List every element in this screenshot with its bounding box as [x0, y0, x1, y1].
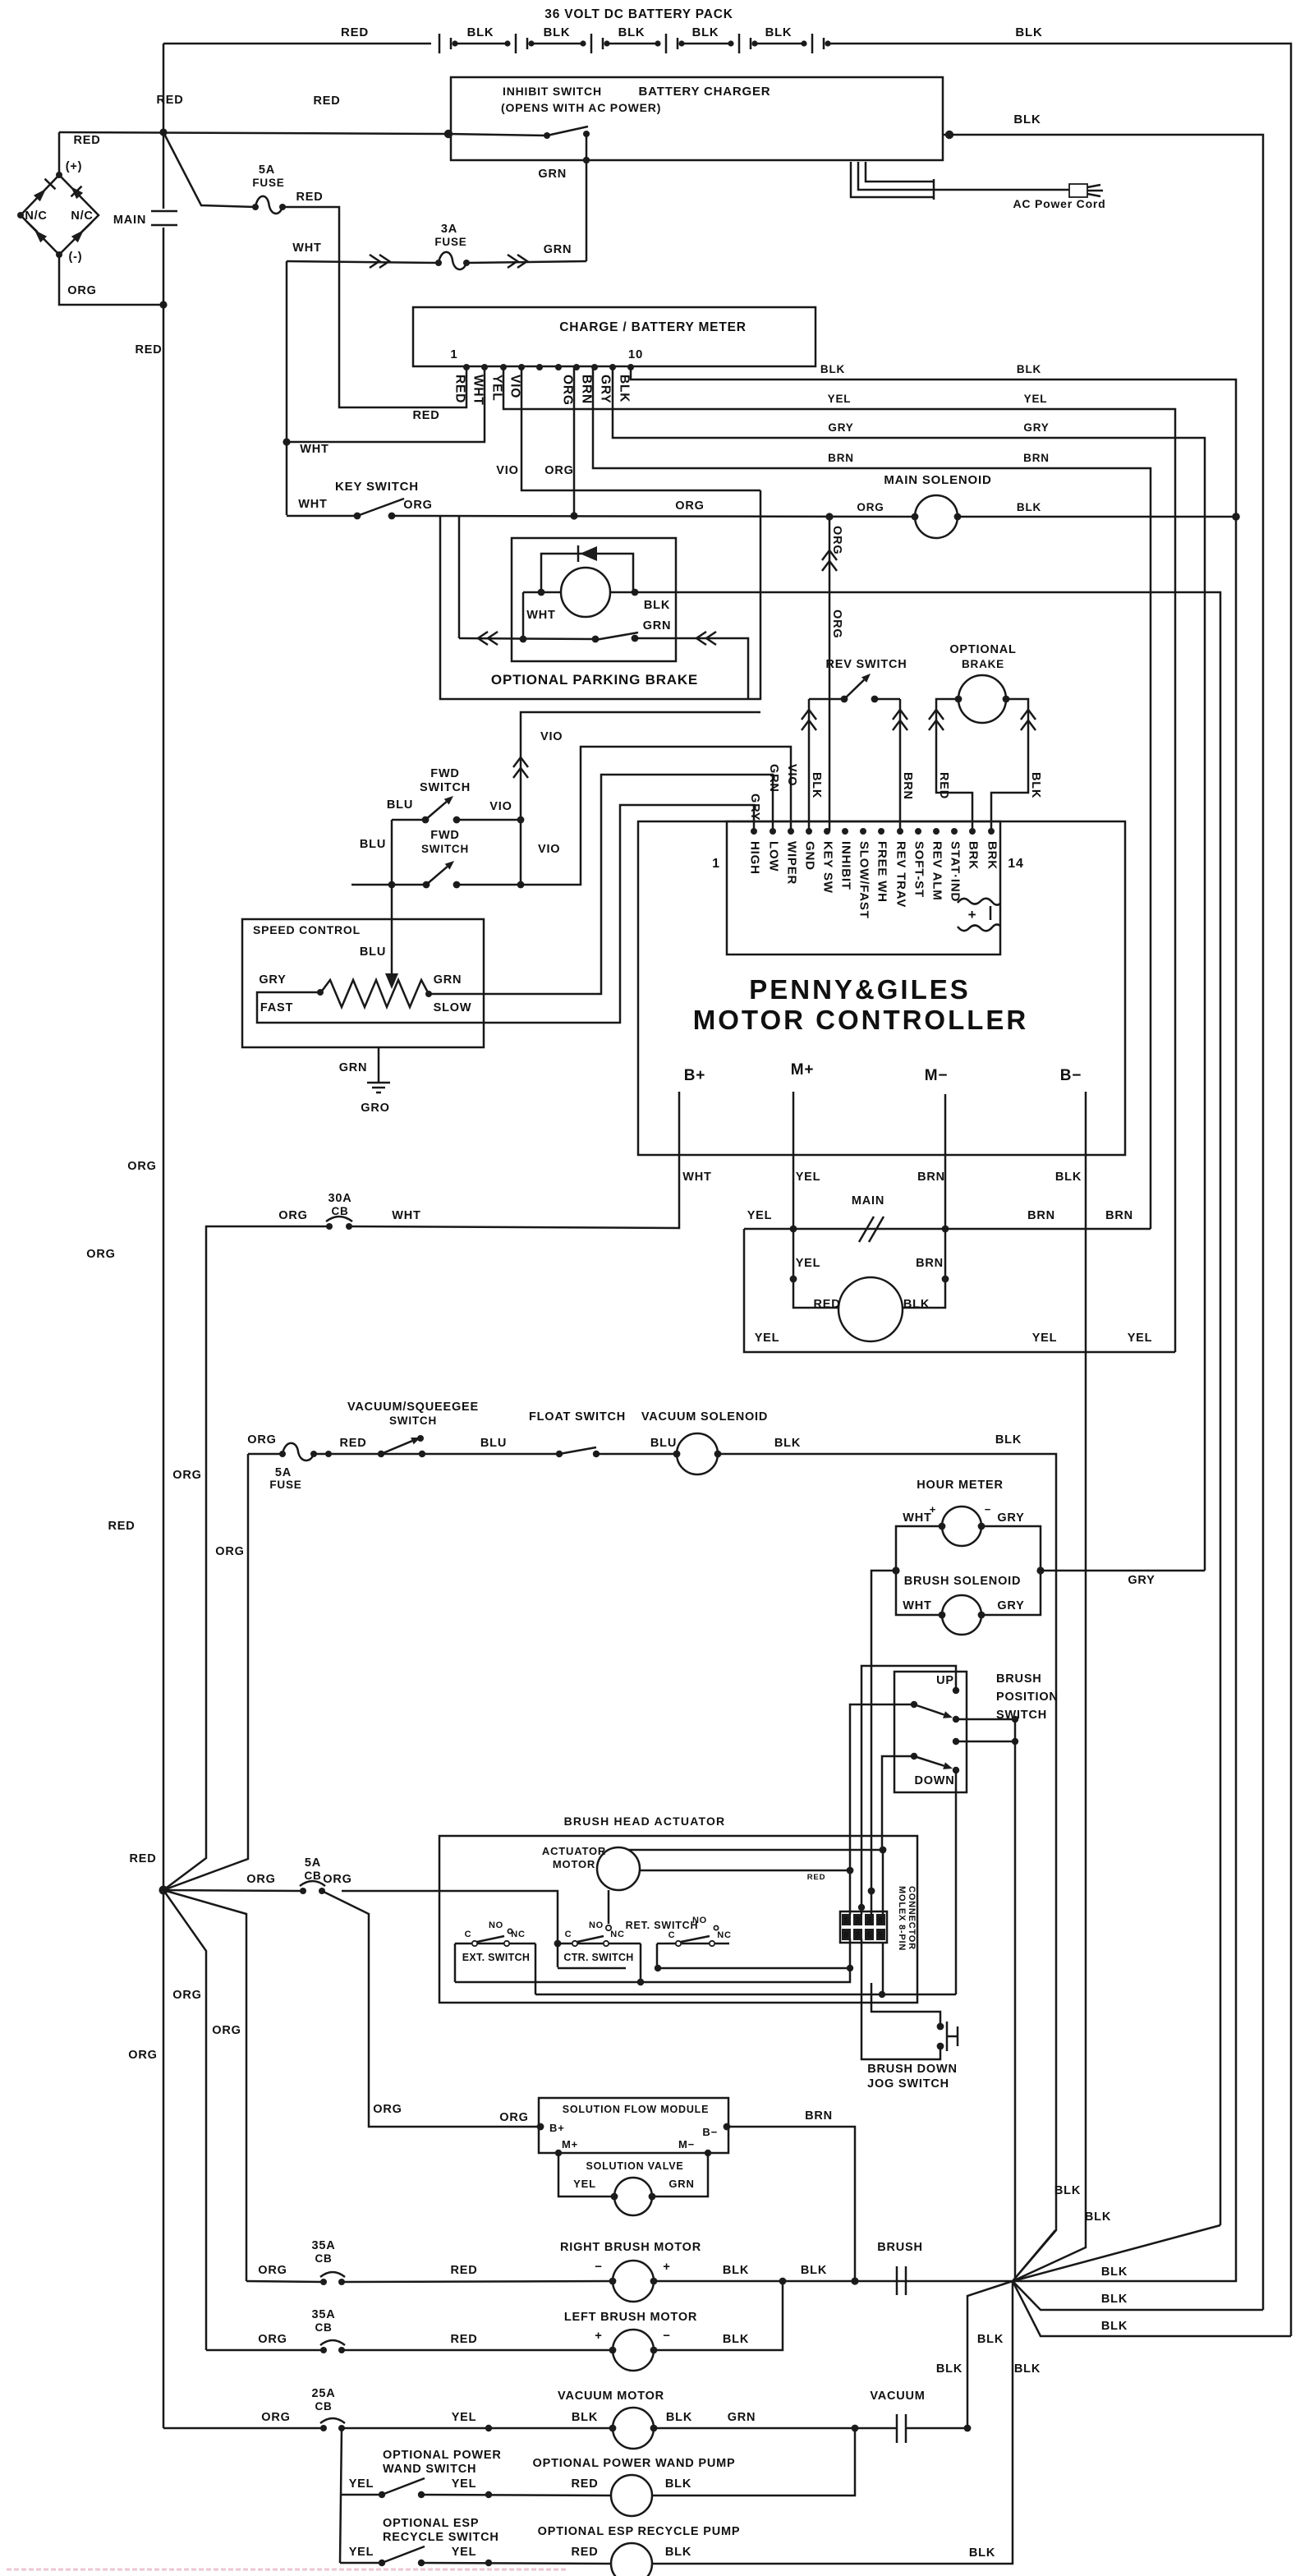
- svg-text:M+: M+: [562, 2138, 578, 2150]
- svg-text:REV TRAV: REV TRAV: [894, 841, 908, 908]
- svg-text:GRY: GRY: [259, 973, 286, 987]
- wire ORG bus to 25A CB: [163, 2427, 324, 2430]
- CTR switch: [558, 1943, 641, 1945]
- wire down common to molex: [882, 1756, 914, 1850]
- svg-text:REV SWITCH: REV SWITCH: [825, 658, 907, 671]
- wire ORG solenoid line to controller KEY SW pin: [829, 517, 831, 831]
- svg-text:YEL: YEL: [796, 1171, 821, 1184]
- svg-text:YEL: YEL: [796, 1257, 821, 1270]
- svg-text:MAIN SOLENOID: MAIN SOLENOID: [884, 473, 991, 487]
- wire RED to 5A fuse: [163, 132, 255, 207]
- speed control box: [242, 919, 484, 1047]
- svg-text:YEL: YEL: [1128, 1332, 1153, 1345]
- brush position down switch blade: [911, 1753, 917, 1759]
- brush head actuator box: [439, 1836, 917, 2003]
- wire down contact down: [955, 1770, 958, 1994]
- svg-text:N/C: N/C: [71, 209, 93, 223]
- svg-text:C: C: [668, 1930, 676, 1940]
- svg-text:GRY: GRY: [1128, 1574, 1155, 1587]
- svg-text:MOTOR CONTROLLER: MOTOR CONTROLLER: [693, 1005, 1029, 1035]
- svg-text:SWITCH: SWITCH: [389, 1414, 437, 1427]
- svg-text:RED: RED: [937, 772, 950, 799]
- svg-text:WHT: WHT: [298, 498, 327, 511]
- svg-text:GRN: GRN: [668, 2178, 694, 2190]
- svg-text:+: +: [595, 2330, 602, 2343]
- svg-text:BLK: BLK: [1029, 772, 1042, 798]
- svg-text:GRN: GRN: [767, 764, 780, 793]
- svg-text:GRN: GRN: [538, 168, 567, 181]
- brush position switch box: [894, 1672, 967, 1792]
- svg-text:YEL: YEL: [452, 2477, 477, 2491]
- svg-text:ORG: ORG: [258, 2264, 287, 2277]
- wire brush position output down to star: [1014, 1719, 1017, 2281]
- svg-text:8: 8: [843, 1931, 848, 1940]
- svg-text:GRY: GRY: [599, 375, 613, 403]
- svg-text:VIO: VIO: [538, 843, 560, 856]
- svg-text:HIGH: HIGH: [748, 841, 762, 875]
- svg-text:YEL: YEL: [1032, 1332, 1058, 1345]
- svg-text:BLK: BLK: [1013, 113, 1041, 126]
- svg-text:+: +: [930, 1503, 936, 1516]
- svg-text:ORG: ORG: [215, 1545, 244, 1558]
- svg-text:RED: RED: [571, 2546, 598, 2559]
- svg-text:OPTIONAL POWER WAND PUMP: OPTIONAL POWER WAND PUMP: [533, 2457, 736, 2470]
- wire GRN inhibit to 3A fuse: [586, 134, 588, 261]
- svg-text:RED: RED: [807, 1873, 825, 1882]
- svg-text:ORG: ORG: [86, 1248, 115, 1261]
- svg-text:BLK: BLK: [1085, 2210, 1111, 2224]
- wire ORG feed into actuator: [342, 1891, 558, 1942]
- svg-text:YEL: YEL: [828, 393, 852, 405]
- svg-text:2: 2: [855, 1916, 860, 1925]
- svg-text:OPTIONAL: OPTIONAL: [949, 643, 1016, 656]
- svg-text:1: 1: [712, 857, 720, 871]
- 5A CB brush feed: [163, 1890, 303, 1891]
- svg-text:WIPER: WIPER: [785, 841, 799, 885]
- svg-text:B+: B+: [549, 2122, 565, 2134]
- svg-text:ORG: ORG: [247, 1433, 276, 1447]
- wire WHT vertical to meter pin2: [286, 261, 288, 515]
- svg-text:BLK: BLK: [936, 2362, 963, 2376]
- svg-text:VIO: VIO: [540, 730, 563, 743]
- speed control potentiometer R1: [320, 980, 429, 1007]
- svg-text:BLU: BLU: [360, 838, 386, 851]
- svg-text:BLK: BLK: [1014, 2362, 1041, 2376]
- scan artifact line (bottom edge): [7, 2569, 567, 2571]
- svg-text:+: +: [663, 2261, 670, 2274]
- svg-text:FLOAT SWITCH: FLOAT SWITCH: [529, 1410, 626, 1424]
- svg-text:BRN: BRN: [917, 1171, 945, 1184]
- wire up output: [956, 1718, 1015, 1721]
- svg-text:NO: NO: [692, 1916, 707, 1925]
- key switch SW2: [287, 515, 357, 517]
- svg-text:ORG: ORG: [67, 284, 96, 297]
- svg-text:−: −: [663, 2330, 670, 2343]
- svg-text:NC: NC: [610, 1930, 625, 1939]
- wire VIO parking brake loop to FWD switches: [521, 712, 760, 885]
- left RED bus vertical: [163, 44, 165, 209]
- wire BLK star to main solenoid bus: [1013, 517, 1236, 2281]
- svg-text:BLK: BLK: [1017, 501, 1041, 513]
- svg-text:BLK: BLK: [765, 26, 793, 39]
- svg-text:INHIBIT: INHIBIT: [839, 841, 853, 890]
- svg-text:VIO: VIO: [489, 800, 512, 813]
- wire common to molex: [850, 1704, 914, 1915]
- right brush motor M3: [342, 2281, 613, 2282]
- svg-text:ORG: ORG: [172, 1989, 201, 2002]
- svg-text:−: −: [985, 1503, 991, 1516]
- wire battery inter-cell segments: [455, 43, 508, 45]
- wire BLK parking brake motor to right: [610, 592, 1220, 2225]
- svg-text:EXT. SWITCH: EXT. SWITCH: [462, 1952, 530, 1963]
- svg-text:35A: 35A: [312, 2308, 336, 2321]
- svg-text:NC: NC: [511, 1930, 526, 1939]
- svg-text:ORG: ORG: [261, 2411, 290, 2424]
- wire actuator motor to molex col1: [640, 1870, 850, 1872]
- svg-text:STAT·IND: STAT·IND: [949, 841, 963, 902]
- wire actuator motor top to molex col4: [629, 1850, 883, 1851]
- svg-text:REV ALM: REV ALM: [930, 841, 944, 901]
- brush down jog switch: [868, 1888, 875, 1895]
- wire BLK star to vacuum contactor: [967, 2281, 1013, 2428]
- svg-text:BLK: BLK: [801, 2264, 827, 2277]
- wire GRN to ground: [378, 1047, 380, 1083]
- svg-text:BLK: BLK: [903, 1298, 930, 1311]
- svg-text:OPTIONAL POWER: OPTIONAL POWER: [383, 2449, 502, 2462]
- wire BLK left brush motor joins right: [655, 2281, 783, 2350]
- svg-text:ORG: ORG: [675, 499, 704, 513]
- svg-text:SPEED CONTROL: SPEED CONTROL: [253, 923, 361, 936]
- svg-text:INHIBIT SWITCH: INHIBIT SWITCH: [503, 85, 602, 98]
- wire ORG key switch to main solenoid: [392, 516, 914, 517]
- optional power wand switch SW8: [340, 2494, 382, 2496]
- svg-text:RED: RED: [453, 375, 467, 403]
- svg-text:FAST: FAST: [260, 1001, 293, 1014]
- wire hour meter node down to molex: [871, 1571, 896, 1915]
- wire BLK B- down to star: [1013, 1114, 1086, 2281]
- wire YEL meter to right bus: [503, 367, 1175, 1352]
- wire GRY meter to right bus: [613, 367, 1205, 1571]
- svg-text:5A: 5A: [275, 1466, 292, 1479]
- svg-text:SOLUTION VALVE: SOLUTION VALVE: [586, 2160, 683, 2172]
- wire BRN rev switch to controller REV TRAV pin: [899, 699, 902, 831]
- svg-text:(+): (+): [66, 160, 83, 173]
- svg-text:VIO: VIO: [508, 375, 522, 398]
- svg-text:KEY SWITCH: KEY SWITCH: [335, 480, 419, 494]
- svg-text:RECYCLE SWITCH: RECYCLE SWITCH: [383, 2531, 499, 2544]
- svg-text:ORG: ORG: [544, 464, 573, 477]
- svg-text:BATTERY CHARGER: BATTERY CHARGER: [639, 85, 771, 99]
- AC power cord: [851, 162, 934, 200]
- wire RED battery positive feed: [59, 132, 448, 134]
- wire GRN speed control to controller LOW pin: [429, 775, 773, 994]
- bridge rectifier (charging plug): [58, 132, 61, 175]
- solution valve V1: [558, 2153, 614, 2196]
- wire BLK right brush motor to brush contactor: [655, 2280, 1013, 2283]
- svg-text:WHT: WHT: [526, 609, 555, 622]
- svg-text:RED: RED: [339, 1437, 366, 1450]
- molex 8-pin connector: [840, 1911, 887, 1943]
- wire molex col4 upper: [882, 1850, 884, 1915]
- wire BLK meter to right bus: [631, 367, 1236, 517]
- svg-text:GRN: GRN: [434, 973, 462, 987]
- battery pack cells B1-B6: [439, 34, 441, 53]
- svg-text:GRN: GRN: [339, 1061, 368, 1074]
- svg-text:BLK: BLK: [1101, 2320, 1128, 2333]
- capacitor MAIN: [151, 211, 177, 225]
- svg-text:YEL: YEL: [452, 2546, 477, 2559]
- svg-text:GRN: GRN: [643, 619, 672, 632]
- wire BRN meter to right bus: [593, 367, 1151, 1229]
- svg-text:4: 4: [878, 1916, 883, 1925]
- svg-text:FUSE: FUSE: [434, 236, 466, 248]
- wire BRN solution module B-: [727, 2127, 855, 2281]
- svg-text:GRY: GRY: [997, 1599, 1024, 1612]
- svg-text:WHT: WHT: [392, 1209, 420, 1222]
- wire YEL feed to optional switches: [340, 2428, 342, 2563]
- svg-text:RET. SWITCH: RET. SWITCH: [626, 1920, 699, 1931]
- svg-text:OPTIONAL ESP RECYCLE PUMP: OPTIONAL ESP RECYCLE PUMP: [538, 2525, 741, 2538]
- svg-text:30A: 30A: [328, 1192, 352, 1205]
- svg-text:BLK: BLK: [618, 26, 646, 39]
- svg-text:FWD: FWD: [430, 767, 459, 780]
- svg-text:MOLEX 8-PIN: MOLEX 8-PIN: [897, 1886, 907, 1951]
- wire BRN M- down: [903, 1114, 945, 1308]
- svg-text:BLK: BLK: [723, 2264, 749, 2277]
- svg-text:RED: RED: [571, 2477, 598, 2491]
- battery charger box: [451, 77, 943, 160]
- svg-text:POSITION: POSITION: [996, 1690, 1059, 1704]
- svg-text:DOWN: DOWN: [914, 1774, 954, 1787]
- svg-text:BLU: BLU: [387, 798, 413, 812]
- svg-text:3A: 3A: [441, 223, 457, 236]
- svg-text:BRK: BRK: [967, 841, 981, 870]
- svg-text:1: 1: [843, 1916, 848, 1925]
- svg-text:ORG: ORG: [246, 1873, 275, 1886]
- wire ORG meter pin6 to key switch line: [573, 367, 576, 516]
- svg-text:SLOW/FAST: SLOW/FAST: [857, 841, 871, 919]
- svg-text:BLK: BLK: [572, 2411, 598, 2424]
- svg-text:VACUUM: VACUUM: [870, 2390, 925, 2403]
- svg-text:ORG: ORG: [499, 2111, 528, 2124]
- svg-text:NO: NO: [589, 1920, 604, 1930]
- svg-text:VIO: VIO: [496, 464, 518, 477]
- svg-text:BLK: BLK: [544, 26, 571, 39]
- svg-text:FREE WH: FREE WH: [875, 841, 889, 903]
- svg-text:7: 7: [855, 1931, 860, 1940]
- svg-text:GRN: GRN: [728, 2411, 756, 2424]
- svg-text:C: C: [465, 1930, 472, 1939]
- svg-text:RED: RED: [341, 25, 369, 39]
- svg-text:BRUSH HEAD ACTUATOR: BRUSH HEAD ACTUATOR: [564, 1815, 726, 1828]
- left brush motor M4: [342, 2349, 613, 2352]
- svg-text:BLK: BLK: [1101, 2293, 1128, 2306]
- svg-text:M−: M−: [925, 1067, 949, 1084]
- controller pins 1-14: [751, 828, 757, 835]
- wire ORG vacuum feed: [248, 1453, 283, 1456]
- wire BLK main solenoid to bus: [958, 516, 1236, 518]
- svg-text:BLK: BLK: [820, 363, 845, 375]
- svg-text:WAND SWITCH: WAND SWITCH: [383, 2463, 476, 2476]
- vacuum motor M5: [342, 2427, 613, 2430]
- svg-text:−: −: [595, 2261, 602, 2274]
- wire BLK star to battery bus: [1013, 2281, 1291, 2336]
- svg-text:BLU: BLU: [650, 1437, 677, 1450]
- svg-text:BLK: BLK: [977, 2333, 1004, 2346]
- svg-text:BRK: BRK: [985, 841, 999, 870]
- parking brake diode D1: [541, 554, 633, 592]
- charge / battery meter box: [413, 307, 816, 366]
- optional esp recycle switch SW9: [340, 2562, 382, 2564]
- svg-text:ORG: ORG: [278, 1209, 307, 1222]
- controller pin connector box: [727, 821, 1000, 954]
- svg-text:RED: RED: [129, 1852, 156, 1865]
- svg-text:BLK: BLK: [665, 2477, 691, 2491]
- wire ORG 30A CB to star: [163, 1226, 329, 1890]
- svg-text:ORG: ORG: [128, 2049, 157, 2062]
- svg-text:NO: NO: [489, 1920, 503, 1930]
- battery +/- symbol: [958, 899, 1000, 931]
- wire BLU to speed control: [391, 820, 393, 973]
- fuse F2 3A: [439, 252, 466, 269]
- svg-text:B+: B+: [684, 1067, 705, 1084]
- svg-text:BLK: BLK: [1015, 25, 1042, 39]
- svg-text:OPTIONAL ESP: OPTIONAL ESP: [383, 2517, 479, 2530]
- svg-text:ORG: ORG: [172, 1469, 201, 1482]
- svg-text:RED: RED: [450, 2264, 477, 2277]
- svg-text:BLK: BLK: [665, 2546, 691, 2559]
- svg-text:BLK: BLK: [1054, 2184, 1081, 2197]
- svg-text:PENNY&GILES: PENNY&GILES: [749, 974, 971, 1005]
- svg-text:1: 1: [450, 347, 457, 361]
- svg-text:RED: RED: [296, 191, 323, 204]
- wire YEL M+ down: [793, 1114, 839, 1308]
- svg-text:CONNECTOR: CONNECTOR: [907, 1886, 917, 1950]
- svg-text:BLK: BLK: [810, 772, 823, 798]
- wire actuator motor down to CTR NO: [608, 1890, 610, 1924]
- star junction node: [159, 1886, 168, 1895]
- svg-text:36 VOLT DC BATTERY PACK: 36 VOLT DC BATTERY PACK: [544, 7, 733, 21]
- svg-text:5A: 5A: [259, 163, 275, 177]
- svg-text:RED: RED: [813, 1298, 840, 1311]
- svg-text:CHARGE / BATTERY METER: CHARGE / BATTERY METER: [559, 320, 746, 334]
- wire GRY hour meter to right bus: [1041, 1570, 1205, 1572]
- svg-text:ORG: ORG: [403, 499, 432, 512]
- actuator internal wires: [657, 1943, 850, 1968]
- svg-text:GND: GND: [803, 841, 817, 871]
- wire battery top RED segment: [163, 43, 431, 45]
- svg-text:LOW: LOW: [767, 841, 781, 872]
- wire VIO fwd2 to controller WIPER pin: [521, 747, 791, 885]
- wire RED 5A fuse to meter pin1: [283, 207, 466, 407]
- svg-text:RED: RED: [156, 94, 183, 107]
- wire BLK wand pump up to vacuum line: [652, 2428, 855, 2495]
- svg-text:BRUSH SOLENOID: BRUSH SOLENOID: [904, 1575, 1022, 1588]
- wire UP contact to molex: [953, 1687, 959, 1694]
- svg-text:BRN: BRN: [828, 452, 854, 464]
- wire ORG star to left brush CB: [163, 1890, 206, 2350]
- svg-text:SWITCH: SWITCH: [420, 781, 471, 794]
- svg-text:BRN: BRN: [1105, 1209, 1133, 1222]
- svg-text:NC: NC: [717, 1930, 732, 1940]
- svg-text:WHT: WHT: [682, 1171, 711, 1184]
- svg-text:BLK: BLK: [995, 1433, 1022, 1447]
- wire ORG CB to solution module: [322, 1891, 539, 2127]
- svg-text:WHT: WHT: [903, 1599, 931, 1612]
- wire mid contact: [953, 1738, 959, 1745]
- svg-text:LEFT BRUSH MOTOR: LEFT BRUSH MOTOR: [564, 2311, 697, 2324]
- wire VIO meter pin4 down: [521, 367, 760, 490]
- svg-text:SLOW: SLOW: [434, 1001, 472, 1014]
- svg-text:BRUSH: BRUSH: [996, 1672, 1042, 1686]
- svg-text:BRUSH: BRUSH: [877, 2241, 923, 2254]
- svg-text:RED: RED: [313, 94, 340, 108]
- wire WHT B+ to 30A CB: [349, 1114, 679, 1228]
- svg-text:B−: B−: [702, 2126, 718, 2138]
- svg-text:(-): (-): [69, 251, 83, 264]
- svg-text:FWD: FWD: [430, 829, 459, 842]
- svg-text:BLK: BLK: [666, 2411, 692, 2424]
- svg-text:YEL: YEL: [349, 2477, 374, 2491]
- svg-text:5: 5: [878, 1931, 883, 1940]
- svg-text:WHT: WHT: [471, 375, 485, 406]
- wire ORG star to right brush CB: [163, 1890, 246, 2281]
- svg-text:YEL: YEL: [755, 1332, 780, 1345]
- svg-text:ORG: ORG: [323, 1873, 351, 1886]
- svg-text:AC Power Cord: AC Power Cord: [1013, 197, 1105, 210]
- svg-text:BLK: BLK: [1055, 1171, 1082, 1184]
- wire RED optional brake to controller BRK pin: [936, 699, 972, 831]
- svg-text:ORG: ORG: [212, 2024, 241, 2037]
- svg-text:BLK: BLK: [467, 26, 494, 39]
- svg-text:WHT: WHT: [292, 241, 321, 255]
- svg-text:BLK: BLK: [774, 1437, 801, 1450]
- svg-text:VACUUM MOTOR: VACUUM MOTOR: [558, 2390, 664, 2403]
- svg-text:14: 14: [1008, 857, 1023, 871]
- terminal stubs: [679, 1092, 1086, 1114]
- svg-text:RED: RED: [73, 134, 100, 147]
- svg-text:CTR. SWITCH: CTR. SWITCH: [563, 1952, 633, 1963]
- svg-text:CB: CB: [315, 2321, 332, 2334]
- svg-text:YEL: YEL: [573, 2178, 596, 2190]
- meter pins 1-10: [463, 364, 470, 370]
- svg-text:BLK: BLK: [618, 375, 632, 402]
- wire WHT motor to brake switch: [522, 592, 525, 639]
- svg-text:BRN: BRN: [805, 2109, 833, 2123]
- optional parking brake inner box: [512, 538, 676, 661]
- EXT switch: [455, 1943, 535, 1945]
- svg-text:BLK: BLK: [1017, 363, 1041, 375]
- brush position up switch blade: [911, 1701, 917, 1708]
- svg-text:BLK: BLK: [1101, 2265, 1128, 2279]
- wire GRY speed control to controller HIGH pin: [257, 805, 754, 1023]
- svg-text:BRN: BRN: [916, 1257, 944, 1270]
- svg-text:10: 10: [628, 347, 643, 361]
- wire ORG to 35A CB: [246, 2281, 324, 2282]
- svg-text:GRY: GRY: [1023, 421, 1049, 434]
- svg-text:ORG: ORG: [561, 375, 575, 406]
- wire BLK esp pump to star vertical: [652, 2281, 1013, 2564]
- svg-text:BRN: BRN: [1023, 452, 1050, 464]
- svg-text:GRY: GRY: [828, 421, 853, 434]
- svg-text:BRN: BRN: [1027, 1209, 1055, 1222]
- svg-text:ORG: ORG: [857, 501, 884, 513]
- svg-text:GRY: GRY: [997, 1511, 1024, 1525]
- svg-text:ORG: ORG: [127, 1160, 156, 1173]
- svg-text:ORG: ORG: [830, 609, 843, 638]
- svg-text:RED: RED: [135, 343, 162, 356]
- svg-text:KEY SW: KEY SW: [821, 841, 835, 894]
